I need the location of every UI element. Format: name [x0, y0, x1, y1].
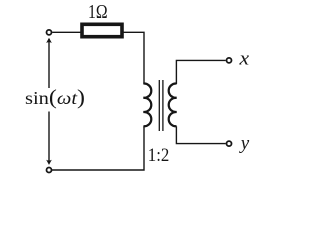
- wire: primary winding down and bottom wire back to source: [51, 126, 144, 170]
- svg-text:sin(ωt): sin(ωt): [25, 85, 85, 109]
- svg-text:y: y: [239, 133, 250, 154]
- transformer core line 1: [158, 80, 160, 131]
- wire: secondary bottom to terminal y: [176, 126, 225, 143]
- svg-text:1Ω: 1Ω: [88, 2, 108, 23]
- svg-text:x: x: [238, 48, 249, 69]
- terminal x: [227, 58, 232, 63]
- transformer secondary winding L2: [169, 84, 177, 127]
- transformer core line 2: [162, 80, 164, 131]
- voltage source arrow line lower segment: [48, 112, 50, 162]
- wire: top-left terminal to resistor: [52, 31, 82, 33]
- terminal bottom-left: [47, 168, 52, 173]
- arrowhead up: [46, 38, 52, 43]
- transformer primary winding L1: [143, 84, 151, 127]
- resistor R1 box: [82, 24, 122, 36]
- terminal top-left: [47, 30, 52, 35]
- voltage source sin(wt) arrow line upper segment: [48, 39, 50, 88]
- svg-text:1:2: 1:2: [148, 145, 170, 166]
- terminal y: [227, 141, 232, 146]
- wire: resistor to top-right corner, down to transformer primary: [122, 32, 144, 84]
- arrowhead down: [46, 160, 52, 165]
- wire: secondary top to terminal x: [176, 60, 225, 84]
